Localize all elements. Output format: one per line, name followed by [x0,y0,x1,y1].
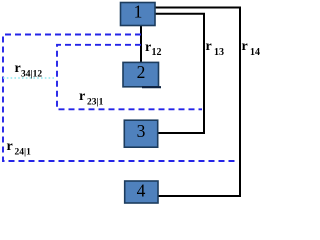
wire r14 (node1 right to node4 right) [155,8,240,197]
svg-text:13: 13 [214,47,224,58]
svg-text:4: 4 [137,181,146,201]
svg-text:r: r [242,39,248,54]
label r_23|1 [79,89,104,107]
node 2 [123,62,159,87]
label r_12 [145,40,162,58]
wire r13 (node1 right to node3 right) [155,14,204,133]
dashed cluster box (inner, conditioning set {2,3}) [57,45,202,110]
label r_14 [242,39,261,58]
svg-text:2: 2 [137,62,146,82]
svg-text:1: 1 [134,1,143,21]
label r_24|1 [7,139,32,158]
thick border segment bottom-right of node 2 [142,86,161,88]
node 4 [125,181,158,204]
svg-text:r: r [15,61,21,76]
svg-text:r: r [206,39,212,54]
svg-text:23|1: 23|1 [87,97,104,107]
svg-text:14: 14 [250,47,260,58]
dashed cluster box (outer, conditioning set {3,4}) [3,35,236,162]
wire r12 (node1 bottom to node2 top) [140,25,142,62]
cyan dotted underline of r_34|12 [3,77,56,79]
svg-text:r: r [79,89,85,104]
svg-text:r: r [7,139,13,154]
node 1 [121,1,156,25]
svg-text:34|12: 34|12 [21,70,42,80]
svg-text:24|1: 24|1 [15,148,32,158]
label r_13 [206,39,225,58]
svg-text:3: 3 [137,121,146,141]
label r_34|12 [15,61,43,80]
node 3 [124,120,157,147]
svg-text:r: r [145,40,151,55]
svg-text:12: 12 [152,47,162,58]
